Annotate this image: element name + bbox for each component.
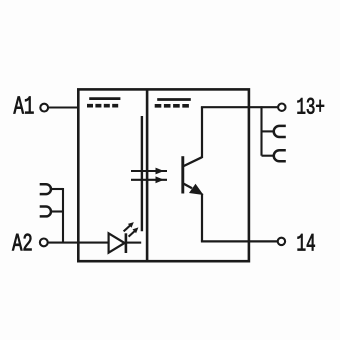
wire socket B2 stub: [51, 210, 63, 212]
enclosure box U1 (relay module outline): [78, 89, 249, 261]
optical coupling arrow 2: [131, 176, 167, 183]
bridge socket B1 (left, upper): [40, 184, 51, 194]
DC symbol (output side): [155, 100, 191, 106]
wire A1 to box: [48, 106, 78, 108]
LED emission arrow 1: [124, 222, 134, 231]
divider (input/output section separator): [146, 89, 149, 261]
bridge socket B2 (left, lower): [40, 207, 51, 217]
wire A2 to LED anode: [48, 242, 109, 244]
terminal 14: [278, 238, 285, 245]
LED emission arrow 2: [129, 227, 139, 236]
isolation barrier: [141, 116, 143, 231]
wire collector vertical: [201, 107, 203, 158]
wire socket B1 stub: [51, 188, 63, 190]
label 13+: [298, 98, 325, 114]
terminal A2: [40, 239, 48, 247]
wire collector to terminal 13+: [201, 106, 278, 108]
wire emitter vertical: [201, 194, 203, 242]
wire socket B4 stub: [262, 155, 276, 157]
phototransistor Q1 collector lead: [184, 157, 203, 166]
label A1: [14, 97, 34, 114]
bridge socket B4 (right, lower): [274, 150, 286, 161]
wire left bridge branch (vertical to A2 wire): [62, 188, 64, 243]
terminal 13+: [278, 104, 285, 111]
phototransistor Q1 emitter lead with arrow: [184, 184, 204, 195]
optical coupling arrow 1: [131, 168, 167, 175]
bridge socket B3 (right, upper): [274, 126, 286, 137]
wire emitter to terminal 14: [201, 240, 278, 242]
DC symbol (input side): [87, 99, 120, 106]
label 14: [298, 234, 315, 251]
terminal A1: [40, 104, 48, 112]
LED D1 (emitter diode): [109, 233, 126, 253]
wire right bridge branch (vertical from 13+ wire): [260, 106, 262, 155]
wire LED cathode: [126, 242, 141, 244]
phototransistor Q1 base bar: [181, 156, 184, 193]
label A2: [12, 234, 31, 251]
wire socket B3 stub: [262, 130, 276, 132]
